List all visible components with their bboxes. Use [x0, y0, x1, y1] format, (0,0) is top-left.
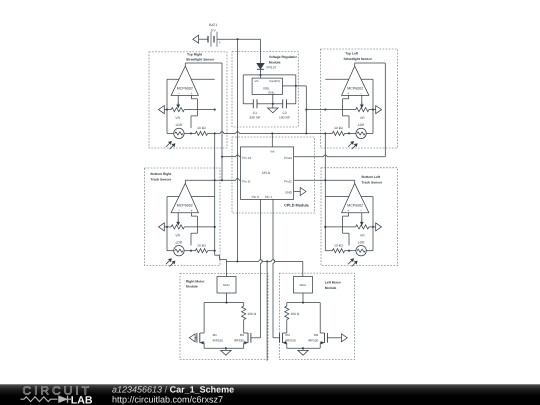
port flag M1 gate: [189, 334, 197, 342]
svg-text:VR: VR: [360, 116, 365, 120]
svg-text:Module: Module: [186, 285, 198, 289]
motor block left: [294, 277, 313, 294]
svg-text:VR: VR: [360, 233, 365, 237]
svg-text:10 kΩ: 10 kΩ: [334, 243, 343, 247]
port flag VR (top right sensor): [159, 106, 172, 114]
svg-text:MCP6002: MCP6002: [347, 204, 363, 208]
wire inverting input to wiper (bottom right sensor): [177, 213, 179, 222]
port flag VR (top left sensor): [369, 106, 382, 114]
svg-text:Streetlight Sensor: Streetlight Sensor: [344, 57, 373, 61]
svg-text:VR: VR: [175, 233, 180, 237]
svg-text:CPLD: CPLD: [262, 171, 271, 175]
wire regulator 5V output: [282, 85, 307, 135]
transistor M6 IRF530: [308, 333, 327, 348]
svg-text:a123456613 / Car_1_Scheme: a123456613 / Car_1_Scheme: [112, 385, 234, 395]
svg-text:10 kΩ: 10 kΩ: [197, 126, 206, 130]
resistor 100 ohm left module: [285, 306, 300, 320]
ground right motor module: [221, 348, 231, 355]
svg-text:−: −: [360, 92, 362, 96]
footer url text: [112, 394, 223, 404]
svg-text:IRF530: IRF530: [213, 339, 223, 343]
svg-text:Pin12: Pin12: [284, 180, 292, 184]
svg-text:Track Sensor: Track Sensor: [151, 178, 172, 182]
svg-text:LDR: LDR: [358, 123, 365, 127]
svg-text:Pin 13: Pin 13: [242, 156, 251, 160]
svg-text:LDR: LDR: [358, 241, 365, 245]
transistor M1 IRF530: [197, 333, 223, 348]
wire LDR terminals (top left sensor): [348, 132, 373, 134]
photoresistor LDR (bottom left sensor): [348, 241, 366, 267]
svg-text:MCP6002: MCP6002: [177, 86, 193, 90]
port flag VR (bottom right sensor): [159, 223, 172, 231]
wire M3 gate to Pin 0: [251, 337, 261, 339]
svg-text:Pin14: Pin14: [284, 156, 292, 160]
op-amp MCP6002 (top left sensor): [342, 66, 369, 96]
wire op-amp output (top left sensor): [355, 63, 386, 66]
wire feedback box (top right sensor): [167, 79, 215, 133]
wire node line left (5V edge down through BR sensor): [214, 133, 216, 251]
svg-text:−: −: [178, 92, 180, 96]
wire top-left op-amp output riser to Pin 14: [384, 63, 386, 157]
svg-text:Top Right: Top Right: [187, 52, 203, 56]
wire regulator outer loop: [243, 74, 296, 105]
wire wiper-side to node edge (bottom right sensor): [184, 226, 215, 228]
diode FR107: [257, 39, 277, 78]
svg-text:BAT1: BAT1: [209, 23, 217, 27]
wire LDR terminals (top right sensor): [167, 132, 192, 134]
svg-text:Motor: Motor: [300, 284, 307, 287]
wire inverting input to wiper (bottom left sensor): [361, 213, 363, 222]
svg-text:GND: GND: [285, 191, 293, 195]
svg-text:Track Sensor: Track Sensor: [362, 181, 383, 185]
photoresistor LDR (bottom right sensor): [166, 241, 184, 267]
potentiometer VR (bottom left sensor): [356, 220, 369, 238]
port flag VR (bottom left sensor): [369, 223, 382, 231]
op-amp MCP6002 (top right sensor): [171, 66, 198, 96]
svg-text:9 V: 9 V: [211, 29, 217, 33]
svg-text:http://circuitlab.com/c6rxsz7: http://circuitlab.com/c6rxsz7: [112, 394, 223, 404]
svg-text:100 Ω: 100 Ω: [247, 312, 256, 316]
svg-text:LDR: LDR: [176, 123, 183, 127]
voltage regulator IC 7805: [252, 78, 282, 104]
logo LAB: [71, 395, 93, 405]
wire inverting input to wiper (top left sensor): [361, 95, 363, 104]
wire non-inverting input to divider (top right sensor): [191, 95, 197, 128]
svg-text:LDR: LDR: [176, 241, 183, 245]
IC CPLD: [241, 147, 294, 200]
wire CPLD Pin 13: [222, 155, 241, 157]
wire divider node (top right sensor): [191, 132, 215, 134]
svg-text:Bottom Left: Bottom Left: [362, 175, 381, 179]
wire top-right op-amp output down to Pin 13 and Pin 11: [221, 63, 223, 181]
svg-text:LAB: LAB: [71, 395, 93, 405]
annotation box: Bottom Left Track Sensor: [321, 168, 398, 266]
capacitor C1 330 mF: [249, 99, 260, 119]
svg-text:+: +: [219, 40, 221, 44]
svg-text:MCP6002: MCP6002: [347, 86, 363, 90]
wire 5V feed to top-left VR: [306, 109, 325, 111]
svg-text:−: −: [178, 209, 180, 213]
svg-text:−: −: [360, 209, 362, 213]
svg-text:Pin 1: Pin 1: [265, 195, 272, 199]
svg-text:M1: M1: [213, 333, 218, 337]
wire wiper-side to node edge (bottom left sensor): [324, 226, 355, 228]
wire LDR terminals (bottom left sensor): [348, 250, 373, 252]
wire inverting input to wiper (top right sensor): [177, 95, 179, 104]
svg-text:100 Ω: 100 Ω: [291, 312, 300, 316]
annotation box: CPLD Module: [232, 137, 315, 213]
motor block right: [217, 277, 236, 294]
svg-text:330 mF: 330 mF: [249, 115, 260, 119]
wire divider node (bottom left sensor): [325, 250, 349, 252]
wire op-amp output (bottom right sensor): [185, 180, 214, 183]
svg-text:Vout(5V): Vout(5V): [269, 79, 280, 83]
port flag M6 gate: [327, 334, 347, 342]
resistor 10 kΩ (top right sensor): [195, 126, 207, 135]
annotation box: Top Right Streetlight Sensor: [149, 52, 227, 148]
resistor 10 kΩ (bottom left sensor): [332, 243, 344, 252]
photoresistor LDR (top right sensor): [166, 123, 184, 149]
wire M4 gate to Pin 1: [273, 337, 280, 339]
wire left module source rail: [287, 347, 320, 349]
potentiometer VR (bottom right sensor): [171, 220, 184, 238]
svg-text:Module: Module: [325, 286, 337, 290]
wire divider node (top left sensor): [325, 132, 349, 134]
wire left motor connections: [287, 261, 320, 333]
wire CPLD Pin 14: [294, 155, 386, 157]
wire wiper-side to node edge (top left sensor): [324, 109, 355, 111]
annotation box: Bottom Right Track Sensor: [145, 168, 221, 266]
svg-text:VR: VR: [175, 116, 180, 120]
wire 9V net vertical down to motor rail: [237, 39, 239, 261]
wire non-inverting input to divider (bottom right sensor): [191, 213, 197, 246]
svg-text:+: +: [347, 92, 349, 96]
svg-text:C2: C2: [282, 111, 286, 115]
photoresistor LDR (top left sensor): [348, 123, 366, 149]
wire wiper-side to node edge (top right sensor): [184, 109, 215, 111]
svg-text:Pin 11: Pin 11: [242, 180, 251, 184]
wire node line right (5V edge down through BL sensor): [324, 133, 326, 250]
wire op-amp output (top right sensor): [185, 63, 222, 66]
battery BAT1 9 V: [198, 23, 220, 47]
svg-text:Module: Module: [269, 61, 281, 65]
wire LDR terminals (bottom right sensor): [167, 250, 192, 252]
potentiometer VR (top right sensor): [171, 102, 184, 120]
wire divider node (bottom right sensor): [191, 250, 215, 252]
wire CPLD Vin pin: [271, 133, 273, 147]
resistor 10 kΩ (top left sensor): [332, 126, 344, 135]
wire CPLD Pin 11 from bottom-right sensor output: [215, 179, 241, 181]
wire CPLD Pin 12 from bottom-left sensor output: [294, 179, 326, 181]
svg-text:M3: M3: [240, 333, 245, 337]
wire battery+ to regulator input: [217, 38, 261, 40]
annotation box: Top Left Streetlight Sensor: [321, 49, 398, 148]
port flag at battery negative: [193, 35, 199, 43]
wire CPLD Pin 0 down to M3 gate: [261, 199, 263, 337]
svg-text:+: +: [347, 209, 349, 213]
logo resistor symbol: [21, 397, 58, 402]
svg-text:IRF530: IRF530: [285, 339, 295, 343]
svg-text:M6: M6: [314, 333, 319, 337]
wire feedback box (bottom left sensor): [325, 197, 373, 251]
wire non-inverting input to divider (top left sensor): [343, 95, 349, 128]
logo CIRCUIT: [23, 383, 93, 397]
svg-text:Bottom Right: Bottom Right: [151, 172, 173, 176]
svg-text:GND: GND: [268, 90, 274, 94]
svg-text:Vin: Vin: [270, 150, 275, 154]
annotation box: Right Motor Module: [180, 274, 268, 360]
svg-text:+: +: [191, 92, 193, 96]
svg-text:+: +: [191, 209, 193, 213]
wire feedback box (top left sensor): [325, 79, 373, 133]
svg-text:Vin: Vin: [255, 79, 259, 83]
wire feedback box (bottom right sensor): [167, 197, 215, 251]
op-amp MCP6002 (bottom right sensor): [171, 183, 198, 213]
wire right module source rail: [204, 347, 244, 349]
svg-text:Top Left: Top Left: [345, 52, 359, 56]
capacitor C2 100 mF: [279, 99, 290, 119]
svg-text:Streetlight Sensor: Streetlight Sensor: [186, 58, 215, 62]
svg-text:Voltage Regulator: Voltage Regulator: [269, 55, 298, 59]
op-amp MCP6002 (bottom left sensor): [342, 183, 369, 213]
svg-text:IRF530: IRF530: [234, 339, 244, 343]
resistor 100 ohm right module: [242, 306, 257, 320]
wire stub from motor rail down between modules: [266, 261, 268, 360]
svg-text:Left Motor: Left Motor: [325, 280, 342, 284]
wire op-amp output (bottom left sensor): [325, 180, 354, 183]
svg-text:MCP6002: MCP6002: [177, 204, 193, 208]
resistor 10 kΩ (bottom right sensor): [195, 243, 207, 252]
svg-text:IRF530: IRF530: [308, 339, 318, 343]
transistor M4 IRF530: [280, 333, 296, 348]
wire 5V rail: [214, 132, 327, 135]
footer title text: [112, 385, 234, 395]
svg-text:M4: M4: [285, 333, 290, 337]
potentiometer VR (top left sensor): [356, 102, 369, 120]
wire CPLD Pin 1 down to M4 gate: [273, 199, 275, 337]
svg-text:FR107: FR107: [267, 66, 277, 70]
annotation box: Voltage Regulator Module: [232, 52, 298, 127]
svg-text:CPLD Module: CPLD Module: [284, 204, 309, 208]
port flag CPLD GND: [294, 188, 306, 196]
ground regulator: [268, 104, 278, 113]
footer bar: [0, 384, 540, 405]
svg-text:Motor: Motor: [223, 284, 230, 287]
svg-text:Pin 0: Pin 0: [252, 195, 259, 199]
wire right motor connections: [204, 261, 244, 333]
svg-text:C1: C1: [253, 111, 257, 115]
svg-text:100 mF: 100 mF: [279, 115, 290, 119]
svg-text:Right Motor: Right Motor: [186, 279, 205, 283]
svg-text:10 kΩ: 10 kΩ: [197, 243, 206, 247]
wire non-inverting input to divider (bottom left sensor): [343, 213, 349, 246]
svg-text:10 kΩ: 10 kΩ: [334, 126, 343, 130]
ground left motor module: [298, 348, 308, 355]
annotation box: Left Motor Module: [279, 273, 354, 359]
logo diode symbol: [59, 396, 72, 403]
transistor M3 IRF530: [234, 333, 251, 348]
wire motor supply rail from BR sensor node: [215, 251, 303, 263]
